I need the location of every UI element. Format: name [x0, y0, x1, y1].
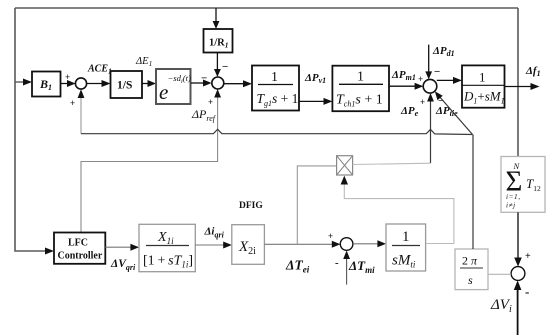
wire: Delta P tie diagonal into summer3: [435, 91, 473, 134]
block tie-line sum T12: [501, 157, 545, 213]
svg-text:1: 1: [271, 70, 278, 85]
svg-text:+: +: [328, 231, 333, 241]
block 1/(Tg1 s+1): [252, 66, 299, 111]
svg-text:1: 1: [357, 70, 364, 85]
svg-text:LFC: LFC: [68, 238, 88, 249]
label Delta P m1 with plus: [391, 69, 423, 84]
wire: top line into 1/R1: [213, 8, 220, 29]
wire: tie feedback horizontal with crossover humps: [81, 129, 473, 134]
wire: Delta T mi up into summer4: [343, 251, 350, 285]
summer 4: [340, 238, 353, 251]
svg-text:−: −: [434, 66, 440, 78]
svg-text:−: −: [201, 73, 207, 85]
wire: Delta P e vertical up into summer3: [427, 93, 434, 163]
svg-text:Controller: Controller: [58, 251, 103, 262]
block 1/sMti: [386, 224, 426, 271]
summer 3: [423, 79, 437, 93]
wire: Delta f1 vertical feedback on right: [517, 8, 519, 157]
svg-text:s: s: [468, 273, 473, 287]
label Delta E1: [135, 56, 152, 68]
svg-text:-: -: [525, 284, 529, 299]
label Delta P tie with minus: [435, 96, 458, 118]
wire: frequency feedback left vertical down to LFC input: [15, 8, 54, 255]
block 2pi/s: [455, 249, 488, 290]
block X2i: [232, 225, 265, 265]
svg-text:i ≠ j: i ≠ j: [506, 202, 515, 210]
svg-text:i = 1 ,: i = 1 ,: [506, 193, 520, 201]
wire: tie feedback up into summer1: [78, 89, 85, 133]
svg-text:+: +: [70, 98, 75, 108]
wire: LFC to X1i block: [105, 244, 139, 251]
block X1i/(1+sT1i): [139, 224, 195, 271]
label Delta P d1: [432, 45, 455, 58]
wire: summer3 to D1 block: [437, 77, 462, 84]
node plus sign at summer1 left: [65, 72, 70, 82]
svg-text:DFIG: DFIG: [239, 201, 263, 211]
wire: sum block down into summer5, plus: [514, 212, 531, 266]
svg-text:+: +: [208, 97, 213, 107]
block 1/(D1+sM1): [462, 65, 505, 107]
multiplier block: [337, 156, 353, 175]
wire: 1/sMti output loop up to multiplier bottom: [341, 176, 454, 244]
node plus sign at summer1 bottom: [70, 98, 75, 108]
label Delta f1: [525, 65, 541, 78]
svg-text:1: 1: [402, 229, 410, 245]
summer 2: [212, 77, 224, 89]
wire: delay to summer2, minus sign: [191, 73, 212, 87]
label Delta i qri: [204, 226, 225, 240]
wire: 1/R1 down into summer2, minus: [214, 53, 228, 78]
wire: branch into B1: [15, 79, 32, 86]
wire: summer2 to Tg1 block: [224, 80, 252, 87]
svg-text:Tch1s + 1: Tch1s + 1: [336, 93, 383, 109]
block 1/S: [111, 71, 143, 98]
label ACE1: [87, 64, 112, 76]
summer 5: [511, 267, 525, 281]
wire: Tch1 to summer3: [389, 83, 423, 90]
wire: D1 output Delta f1 arrow: [505, 83, 540, 90]
wire: summer5 output to 2pi/s block: [488, 273, 511, 275]
wire: summer4 to 1/sMti: [353, 240, 386, 247]
label Delta T mi with minus: [335, 257, 375, 275]
label DFIG: [239, 201, 263, 211]
label Delta P v1: [304, 72, 326, 85]
svg-text:+: +: [525, 251, 531, 262]
label Delta V qri: [110, 258, 136, 272]
wire: Delta V i up into summer5, minus: [514, 280, 530, 335]
label Delta V i: [490, 297, 512, 315]
label Delta T ei: [285, 258, 310, 275]
wire: LFC output up to Delta P ref into summer2: [81, 89, 221, 233]
svg-text:2 π: 2 π: [462, 254, 478, 268]
wire: X1i to X2i: [195, 242, 232, 249]
wire: tap from Tei line up to multiplier left input: [297, 166, 336, 244]
wire: B1 to summer 1: [61, 80, 76, 87]
block B1: [32, 72, 61, 97]
node plus at summer4: [328, 231, 333, 241]
summer 1: [75, 78, 86, 89]
svg-text:−: −: [222, 61, 228, 73]
wire: multiplier output to Delta P e vertical: [353, 163, 431, 164]
block 1/(Tch1 s+1): [332, 66, 389, 112]
wire: Tg1 to Tch1: [299, 98, 332, 105]
wire: Delta P d1 down into summer3, minus: [425, 45, 440, 80]
svg-text:D1+sM1: D1+sM1: [463, 89, 505, 106]
wire: summer1 to 1/S: [87, 80, 111, 87]
wire: 2pi/s up to tie junction: [472, 135, 474, 250]
svg-text:+: +: [420, 97, 425, 107]
label Delta P e with plus: [400, 97, 425, 118]
svg-text:ΔVi: ΔVi: [490, 297, 512, 315]
svg-text:Tg1s + 1: Tg1s + 1: [257, 91, 299, 108]
svg-text:e: e: [159, 80, 168, 104]
block 1/R1: [204, 29, 233, 53]
label Delta P ref with plus: [191, 97, 217, 123]
svg-text:1: 1: [479, 70, 486, 85]
wire: 1/S to delay block: [142, 80, 156, 87]
svg-text:-: -: [335, 257, 339, 269]
block delay e^-sd(t): [156, 69, 191, 104]
svg-text:+: +: [418, 74, 423, 84]
svg-text:+: +: [65, 72, 70, 82]
wire: frequency feedback top line: [15, 7, 518, 9]
block LFC Controller: [54, 233, 105, 264]
svg-text:1/S: 1/S: [117, 80, 132, 92]
wire: X2i to summer4 with tap junction: [264, 241, 340, 248]
